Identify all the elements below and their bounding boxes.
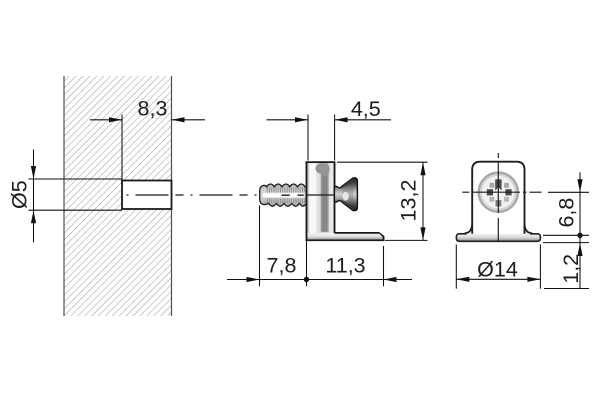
svg-text:7,8: 7,8 — [267, 253, 297, 277]
svg-text:8,3: 8,3 — [138, 97, 168, 121]
svg-text:4,5: 4,5 — [351, 97, 381, 121]
svg-text:Ø5: Ø5 — [8, 180, 32, 209]
svg-text:6,8: 6,8 — [555, 198, 579, 228]
svg-text:11,3: 11,3 — [325, 253, 365, 277]
svg-text:1,2: 1,2 — [559, 254, 583, 284]
svg-text:Ø14: Ø14 — [477, 257, 518, 281]
svg-text:13,2: 13,2 — [397, 180, 421, 222]
